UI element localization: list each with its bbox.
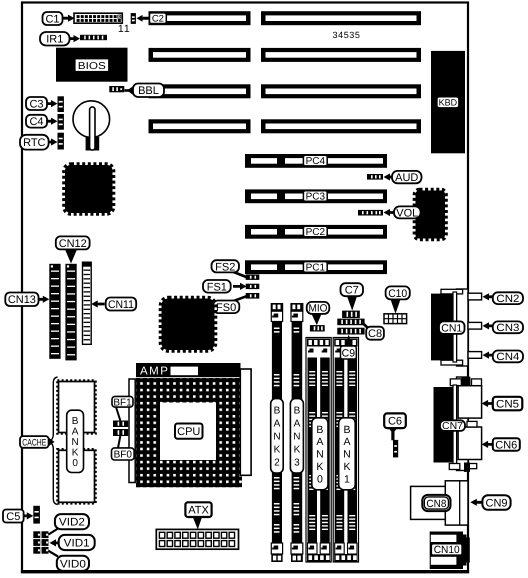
svg-text:C5: C5 — [6, 511, 20, 523]
svg-text:C10: C10 — [388, 288, 407, 300]
label BANK1 (SIMM) — [339, 418, 356, 490]
connector AUD header — [367, 174, 383, 180]
svg-text:AMP: AMP — [140, 365, 169, 377]
SIMM slot BANK2 — [271, 303, 284, 562]
svg-text:A: A — [294, 419, 301, 430]
label VOL — [384, 206, 421, 219]
CPU socket right lever — [240, 369, 251, 475]
label BF0 — [112, 436, 135, 461]
SIMM slot BANK1 — [333, 338, 358, 563]
svg-text:N: N — [71, 437, 78, 448]
svg-text:B: B — [316, 424, 323, 436]
label VID1 — [50, 535, 95, 550]
label BANK2 — [271, 399, 284, 474]
svg-text:B: B — [72, 416, 79, 427]
CPU socket U4 (PGA) — [136, 378, 242, 487]
svg-text:A: A — [343, 436, 350, 448]
svg-text:N: N — [273, 431, 280, 442]
svg-text:C4: C4 — [29, 116, 43, 128]
svg-text:A: A — [72, 426, 79, 437]
svg-text:VID0: VID0 — [60, 558, 86, 570]
label CN11 — [91, 298, 136, 311]
svg-text:CN2: CN2 — [496, 293, 519, 305]
connector ATX power — [156, 529, 238, 549]
svg-text:C8: C8 — [368, 328, 382, 340]
header CN11 — [83, 262, 92, 344]
svg-text:0: 0 — [72, 458, 78, 469]
svg-text:PC1: PC1 — [306, 263, 326, 274]
ISA slot row 4 right bar — [261, 119, 421, 133]
label BBL — [125, 84, 165, 98]
label CN2 — [483, 292, 524, 305]
chip U1 (QFP top-left) — [64, 164, 114, 214]
label CN8 — [422, 495, 450, 511]
svg-text:CN3: CN3 — [496, 322, 519, 334]
svg-text:BF1: BF1 — [113, 397, 132, 408]
ISA slot row 1 right bar — [261, 11, 421, 25]
svg-text:B: B — [274, 406, 281, 417]
svg-text:ATX: ATX — [188, 505, 209, 517]
label C3 — [26, 97, 58, 110]
CN4 port stub — [468, 352, 482, 359]
connector IR1 header — [80, 35, 107, 40]
svg-text:CN8: CN8 — [426, 498, 446, 510]
connector CN8 (PS/2) — [411, 481, 468, 525]
connector VOL header — [358, 210, 383, 216]
svg-text:1: 1 — [344, 473, 350, 485]
jumper block VID — [33, 531, 48, 553]
label ATX — [185, 502, 211, 529]
svg-text:A: A — [316, 436, 323, 448]
svg-text:C1: C1 — [45, 13, 59, 25]
connector BBL header — [109, 86, 124, 92]
battery B1 — [73, 101, 110, 151]
ISA slot row 3 right bar — [261, 84, 421, 98]
svg-text:BBL: BBL — [138, 85, 159, 97]
svg-text:CN7: CN7 — [442, 421, 463, 432]
svg-text:K: K — [316, 461, 323, 473]
label C10 — [386, 286, 410, 313]
svg-text:FS1: FS1 — [207, 281, 227, 293]
label C1 — [43, 12, 75, 25]
CN2 port stub — [468, 293, 482, 300]
ISA slot row 1 left bar — [149, 11, 251, 25]
svg-text:A: A — [274, 419, 281, 430]
svg-text:0: 0 — [317, 473, 323, 485]
label BF1 — [112, 396, 133, 420]
svg-text:IR1: IR1 — [46, 34, 63, 46]
ISA slot row 4 left bar — [149, 119, 251, 133]
jumper block FS row3 — [246, 293, 260, 299]
label FS0 — [213, 296, 248, 314]
label MIO — [307, 302, 330, 325]
label C9 — [341, 335, 357, 360]
svg-text:K: K — [343, 461, 350, 473]
connector C8 row1 — [337, 319, 364, 326]
label VID0 — [49, 551, 90, 571]
svg-text:K: K — [274, 444, 281, 455]
svg-text:CN5: CN5 — [496, 399, 519, 411]
cache brace — [49, 377, 57, 505]
CN5 port — [458, 386, 482, 418]
svg-text:CN6: CN6 — [495, 439, 517, 451]
label CACHE — [20, 436, 55, 448]
connector MIO header — [310, 325, 325, 331]
label CN1 — [439, 321, 465, 334]
BIOS chip U10 — [56, 48, 128, 82]
label CN9 — [470, 495, 510, 510]
svg-text:CN4: CN4 — [496, 351, 519, 363]
svg-text:N: N — [343, 449, 351, 461]
jumper C5 — [33, 506, 40, 524]
cache chip U5 — [57, 380, 95, 433]
SIMM slot BANK0 — [306, 338, 331, 563]
svg-text:CN13: CN13 — [8, 294, 36, 306]
svg-text:MIO: MIO — [309, 303, 328, 315]
svg-text:K: K — [294, 444, 301, 455]
svg-text:B: B — [294, 406, 301, 417]
label VID2 — [49, 514, 90, 534]
svg-text:KBD: KBD — [439, 98, 458, 108]
chip U2 (QFP right) — [415, 190, 447, 240]
svg-text:VID2: VID2 — [59, 517, 85, 529]
svg-text:CN9: CN9 — [486, 497, 508, 509]
svg-text:C3: C3 — [29, 98, 43, 110]
svg-text:BF0: BF0 — [114, 450, 133, 461]
label C5 — [3, 510, 33, 523]
label FS2 — [212, 260, 248, 277]
CPU socket left lever — [129, 379, 135, 483]
jumper BF row2 — [113, 429, 128, 436]
svg-text:CN1: CN1 — [441, 322, 462, 334]
svg-text:PC3: PC3 — [306, 192, 326, 203]
jumper C4 — [58, 114, 64, 130]
svg-text:11: 11 — [118, 23, 131, 35]
svg-text:FS0: FS0 — [216, 302, 236, 314]
label C4 — [26, 115, 58, 128]
label BANK0 (SIMM) — [312, 418, 328, 490]
svg-text:C6: C6 — [388, 416, 402, 428]
svg-text:BIOS: BIOS — [78, 61, 106, 72]
CN6 port — [458, 427, 482, 460]
connector CN1 (stacked ports) — [431, 289, 468, 366]
connector C1 pin header — [74, 13, 122, 23]
label C7 — [341, 283, 364, 310]
svg-text:FS2: FS2 — [215, 261, 235, 273]
svg-text:2: 2 — [274, 457, 280, 468]
svg-text:B: B — [343, 424, 350, 436]
svg-text:CPU: CPU — [177, 426, 200, 438]
svg-text:C9: C9 — [342, 347, 356, 359]
svg-text:N: N — [293, 431, 300, 442]
PCI slot PC2 — [245, 225, 387, 239]
label BANK0 (cache) — [67, 410, 84, 472]
chip U3 (QFP middle) — [161, 298, 216, 352]
jumper C3 — [58, 96, 64, 112]
PCI slot PC4 — [245, 154, 387, 168]
svg-text:CN11: CN11 — [108, 299, 134, 311]
jumper block FS row1 — [246, 275, 260, 280]
connector C8 row2 — [337, 328, 364, 335]
svg-text:C7: C7 — [345, 285, 359, 297]
svg-text:C2: C2 — [152, 14, 164, 25]
AMP retention bar — [136, 363, 241, 377]
label CN3 — [483, 321, 524, 334]
tab between CN5 and CN6 — [467, 421, 477, 427]
connector C7 header — [342, 311, 360, 318]
svg-text:CACHE: CACHE — [22, 437, 46, 448]
label AUD — [384, 171, 422, 184]
svg-text:3: 3 — [294, 457, 300, 468]
label C6 — [384, 413, 406, 440]
ISA slot row 3 left bar — [149, 84, 251, 98]
label CN7 — [440, 420, 465, 432]
connector CN10 (USB) — [430, 532, 470, 570]
label CPU — [175, 424, 203, 439]
svg-text:K: K — [72, 447, 79, 458]
header CN12 — [65, 264, 76, 361]
label C8 — [362, 322, 384, 340]
jumper C6 — [393, 440, 398, 458]
keyboard connector KBD — [431, 51, 465, 153]
SIMM slot BANK3 — [290, 303, 303, 562]
jumper block FS row2 — [246, 284, 260, 289]
connector CN7 (serial/parallel ports) — [434, 377, 482, 472]
label CN5 — [482, 397, 523, 411]
ISA slot row 2 left bar — [149, 48, 251, 62]
PCI slot PC3 — [245, 189, 387, 203]
CN3 port stub — [468, 322, 482, 329]
label IR1 — [40, 32, 80, 46]
PCI slot PC1 — [245, 260, 387, 274]
label CN6 — [482, 438, 520, 451]
svg-text:RTC: RTC — [23, 137, 45, 149]
ISA slot row 2 right bar — [261, 48, 421, 62]
svg-text:34535: 34535 — [332, 30, 360, 40]
label FS1 — [203, 280, 247, 293]
label CN12 — [56, 236, 90, 263]
svg-text:PC4: PC4 — [306, 156, 326, 167]
label CN4 — [483, 351, 524, 364]
svg-text:PC2: PC2 — [306, 227, 326, 238]
connector C10 grid — [384, 314, 407, 324]
svg-text:CN10: CN10 — [434, 544, 460, 556]
jumper BF row1 — [113, 421, 128, 428]
label C2 — [137, 13, 167, 25]
svg-text:VOL: VOL — [396, 207, 418, 219]
svg-text:AUD: AUD — [395, 172, 418, 184]
svg-text:CN12: CN12 — [59, 238, 87, 250]
label CN13 — [5, 293, 49, 307]
svg-text:VID1: VID1 — [64, 537, 90, 549]
svg-text:N: N — [316, 449, 324, 461]
jumper near C2 — [131, 13, 136, 24]
label BANK3 — [290, 399, 303, 474]
cache chip U6 — [57, 449, 95, 503]
jumper RTC — [58, 133, 64, 150]
label RTC — [20, 135, 58, 150]
header CN13 — [49, 264, 60, 359]
